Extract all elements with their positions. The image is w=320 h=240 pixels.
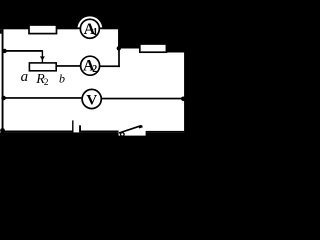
resistor R1 (top box) — [29, 25, 57, 34]
battery negative plate (short) — [79, 125, 81, 132]
paper region left — [0, 29, 118, 132]
paper halo around ammeter A1 — [77, 16, 102, 41]
wire: junction to series resistor — [118, 47, 140, 49]
node: junction of right rail and voltmeter branch — [181, 97, 186, 102]
wire: rheostat b terminal to ammeter A2 — [56, 65, 80, 67]
svg-text:2: 2 — [92, 64, 97, 75]
wire: voltmeter branch right — [102, 98, 184, 100]
paper region middle-right — [117, 48, 167, 132]
svg-text:2: 2 — [44, 78, 49, 88]
node: bottom-left corner junction — [0, 128, 5, 133]
svg-text:1: 1 — [93, 27, 98, 38]
ammeter A1 — [80, 19, 99, 38]
switch S handle tip — [139, 126, 143, 127]
paper region far-right — [167, 53, 185, 133]
wire: bottom rail right of switch — [146, 131, 185, 133]
paper pocket under open switch — [119, 131, 146, 136]
ammeter A2 — [81, 56, 100, 75]
wire: rheostat wiper stem — [42, 51, 43, 64]
wire: series resistor to right rail — [167, 47, 186, 49]
wire: vertical joining A1 branch and A2 branch — [118, 47, 120, 68]
corner mask top-left — [0, 29, 2, 34]
wire: branch to rheostat wiper — [3, 50, 43, 52]
wire: ammeter A2 to right vertical — [100, 65, 120, 67]
node: junction of left rail and voltmeter branch — [1, 96, 6, 101]
wire: top rail from battery + via R1 to A1 — [2, 27, 118, 29]
switch S lever (open) — [119, 126, 141, 133]
svg-text:b: b — [59, 71, 65, 85]
svg-text:V: V — [86, 92, 97, 108]
switch S pivot contact — [121, 133, 125, 137]
wiper arrowhead of rheostat R2 — [40, 56, 45, 60]
resistor R0 (right series box) — [140, 44, 167, 52]
node: junction of branches at top right — [117, 46, 121, 50]
rheostat R2 body — [29, 63, 56, 71]
wire: battery to switch — [81, 131, 119, 133]
voltmeter V — [82, 89, 101, 108]
node: junction of left rail and wiper branch — [2, 49, 6, 53]
wire: voltmeter branch left — [3, 97, 81, 99]
wire: left vertical rail — [2, 28, 4, 133]
wire: bottom rail left of battery — [2, 131, 73, 133]
wire: right vertical rail — [184, 47, 186, 132]
svg-text:a: a — [21, 69, 29, 85]
battery positive plate (long) — [72, 120, 73, 132]
